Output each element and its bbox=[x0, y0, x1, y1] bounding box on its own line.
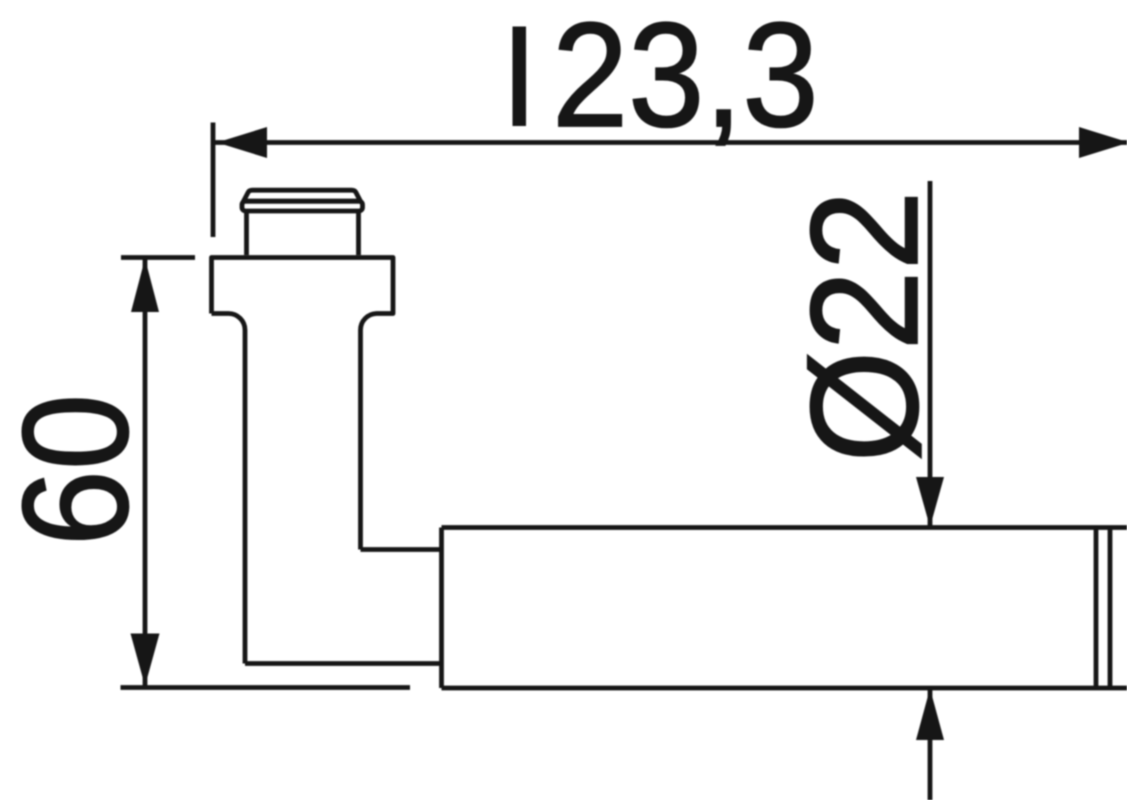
svg-text:23,3: 23,3 bbox=[552, 0, 819, 158]
label diameter 22 (rotated) bbox=[780, 190, 950, 462]
dimension line diameter 22 lower bbox=[928, 689, 933, 800]
label 123,3 rest bbox=[552, 0, 819, 158]
handle neck ring band bbox=[242, 201, 363, 211]
shoulder joining neck to grip bbox=[361, 547, 442, 552]
label 123,3 : digit 1 drawn as bar bbox=[513, 27, 527, 127]
arrowhead down (60) bbox=[131, 634, 160, 687]
arrowhead left (123,3) bbox=[217, 127, 267, 158]
tick top (60 dim) bbox=[121, 255, 195, 260]
rosette flange bbox=[212, 258, 394, 664]
arrowhead up (diameter 22) bbox=[916, 689, 944, 741]
arrowhead up (60) bbox=[131, 259, 159, 313]
dimension line 60 bbox=[143, 259, 148, 686]
svg-text:Ø22: Ø22 bbox=[780, 190, 950, 462]
svg-text:60: 60 bbox=[0, 394, 159, 546]
grip end cap lines bbox=[1096, 528, 1110, 689]
tick bottom (60 dim) bbox=[121, 685, 411, 690]
handle column bottom edge bbox=[245, 661, 442, 666]
dimension line diameter 22 upper bbox=[928, 181, 933, 526]
label 60 (rotated) bbox=[0, 394, 159, 546]
dimension line 123,3 bbox=[213, 140, 1127, 145]
arrowhead down (diameter 22) bbox=[916, 477, 944, 527]
arrowhead right (123,3) bbox=[1079, 127, 1127, 158]
grip cylinder outline bbox=[442, 528, 1127, 689]
extension line left (123,3 dim) bbox=[211, 123, 216, 238]
handle cap (spindle end cap) bbox=[244, 190, 361, 201]
handle neck (square shank) bbox=[247, 212, 359, 255]
